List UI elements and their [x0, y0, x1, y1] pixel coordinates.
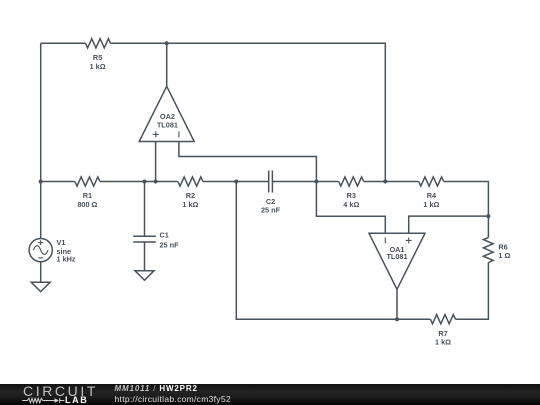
op-amp OA2 + input pin — [155, 142, 157, 182]
svg-text:C1: C1 — [160, 231, 169, 240]
resistor R6 — [483, 238, 493, 263]
footer title line — [115, 384, 198, 393]
svg-text:TL081: TL081 — [386, 252, 407, 261]
op-amp OA2 - input pin wire to node — [179, 142, 317, 182]
resistor R1 — [75, 177, 100, 186]
svg-text:C2: C2 — [266, 197, 275, 206]
wire R4 to right corner down to R6 — [444, 182, 489, 238]
svg-text:R2: R2 — [186, 191, 195, 200]
ground under C1 — [135, 271, 154, 280]
logo LAB text — [65, 395, 88, 405]
op-amp OA1 + input wire to R6 top — [409, 216, 489, 233]
op-amp OA1 minus mark — [384, 237, 386, 243]
resistor R5 — [86, 39, 111, 48]
footer url line — [115, 395, 231, 404]
op-amp OA1 plus mark — [406, 237, 412, 243]
footer bar — [0, 384, 540, 405]
svg-text:1 kΩ: 1 kΩ — [435, 338, 451, 347]
ground under V1 — [31, 282, 50, 291]
V1 minus mark — [38, 257, 43, 259]
svg-text:4 kΩ: 4 kΩ — [343, 200, 359, 209]
svg-text:1 kHz: 1 kHz — [57, 254, 76, 263]
wire R1 to R2 — [100, 181, 178, 183]
wire R3 to R4 — [364, 181, 419, 183]
svg-text:25 nF: 25 nF — [261, 206, 281, 215]
V1 sine wave — [33, 246, 48, 255]
svg-text:1 kΩ: 1 kΩ — [423, 200, 439, 209]
op-amp OA1 output wire — [396, 289, 398, 319]
capacitor C1 branch wire — [144, 182, 146, 237]
svg-text:1 Ω: 1 Ω — [498, 251, 510, 260]
wire C2 to R3 — [272, 181, 338, 183]
op-amp OA2 output wire — [166, 43, 168, 86]
wire main left to R1 — [41, 181, 75, 183]
capacitor C1 — [133, 236, 156, 242]
svg-text:1 kΩ: 1 kΩ — [182, 200, 198, 209]
resistor R2 — [178, 177, 203, 186]
wire top horizontal R5 to right corner, down to main wire — [111, 43, 386, 181]
svg-text:R3: R3 — [347, 191, 356, 200]
resistor R3 — [339, 177, 364, 186]
wire node to OA1 - input — [316, 182, 385, 234]
svg-text:R4: R4 — [427, 191, 437, 200]
logo CIRCUIT text — [23, 384, 98, 398]
op-amp OA2 plus mark — [153, 131, 159, 137]
wire R6 down to bottom right corner, left to R7 — [455, 263, 488, 320]
op-amp OA2 minus mark — [178, 131, 180, 137]
wire V1 to ground — [40, 262, 42, 283]
resistor R7 — [430, 315, 455, 324]
svg-text:800 Ω: 800 Ω — [77, 200, 97, 209]
capacitor C2 — [269, 171, 273, 193]
svg-text:1 kΩ: 1 kΩ — [90, 62, 106, 71]
junction node dots — [39, 180, 43, 184]
op-amp OA2 triangle — [139, 86, 194, 141]
wire bottom from R7 left, up to main wire — [236, 182, 430, 320]
wire C1 to ground — [144, 242, 146, 271]
svg-text:R5: R5 — [93, 53, 102, 62]
resistor R4 — [419, 177, 444, 186]
svg-text:25 nF: 25 nF — [160, 240, 180, 249]
svg-text:R1: R1 — [83, 191, 92, 200]
wire R2 to C2 — [203, 181, 269, 183]
svg-text:R7: R7 — [438, 329, 447, 338]
source V1 — [29, 239, 52, 262]
V1 plus mark — [38, 240, 43, 245]
svg-text:TL081: TL081 — [157, 120, 178, 129]
wire top-left horizontal to R5 — [41, 42, 86, 44]
wire left vertical rail — [40, 43, 42, 238]
svg-text:V1: V1 — [57, 238, 66, 247]
op-amp OA1 triangle — [369, 233, 425, 289]
logo resistor+diode glyph — [22, 396, 65, 405]
